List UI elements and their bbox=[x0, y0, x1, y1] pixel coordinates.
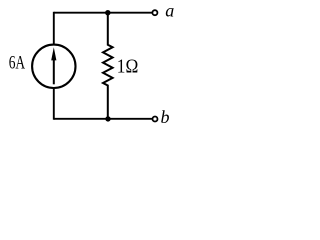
wire: bottom-right horizontal segment to terminal b bbox=[108, 118, 153, 120]
svg-text:a: a bbox=[165, 0, 174, 20]
svg-text:1Ω: 1Ω bbox=[117, 56, 139, 77]
resistor R1 (1 ohm) zigzag with leads bbox=[103, 13, 113, 120]
wire: bottom-left horizontal segment bbox=[54, 118, 108, 120]
wire: top-right horizontal segment to terminal a bbox=[108, 12, 153, 14]
svg-text:6A: 6A bbox=[9, 54, 26, 74]
junction node (top, wire to resistor) bbox=[105, 10, 110, 15]
terminal b (open circle) bbox=[153, 117, 158, 122]
wire: left vertical segment above current source bbox=[53, 12, 55, 46]
wire: top-left horizontal segment bbox=[54, 12, 108, 14]
junction node (bottom, wire to resistor) bbox=[105, 116, 110, 121]
terminal a (open circle) bbox=[152, 10, 157, 15]
wire: left vertical segment below current source bbox=[53, 87, 55, 120]
current source I1 (6A), arrow pointing up bbox=[32, 45, 75, 88]
svg-text:b: b bbox=[161, 107, 170, 127]
